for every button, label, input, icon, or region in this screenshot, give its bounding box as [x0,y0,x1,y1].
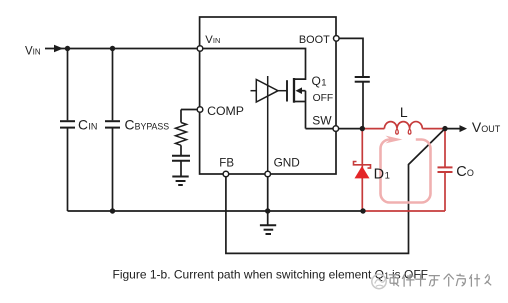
svg-text:1: 1 [321,77,326,88]
svg-text:C: C [78,117,88,132]
svg-text:C: C [456,164,466,180]
svg-text:BOOT: BOOT [299,34,330,46]
svg-text:L: L [400,104,408,120]
svg-text:IN: IN [213,36,221,45]
svg-text:Figure 1-b. Current path when: Figure 1-b. Current path when switching … [113,267,384,281]
svg-text:IN: IN [33,48,41,57]
svg-text:O: O [467,168,474,178]
svg-text:Q: Q [312,74,321,88]
svg-text:COMP: COMP [207,104,244,118]
svg-text:1: 1 [385,170,390,181]
svg-text:C: C [125,117,135,132]
svg-text:BYPASS: BYPASS [135,121,170,131]
svg-text:GND: GND [274,156,300,170]
svg-text:SW: SW [312,113,332,127]
svg-text:OUT: OUT [481,124,501,134]
svg-text:FB: FB [219,158,234,170]
svg-text:OFF: OFF [313,93,334,104]
svg-text:IN: IN [88,121,97,131]
svg-text:D: D [374,166,384,182]
